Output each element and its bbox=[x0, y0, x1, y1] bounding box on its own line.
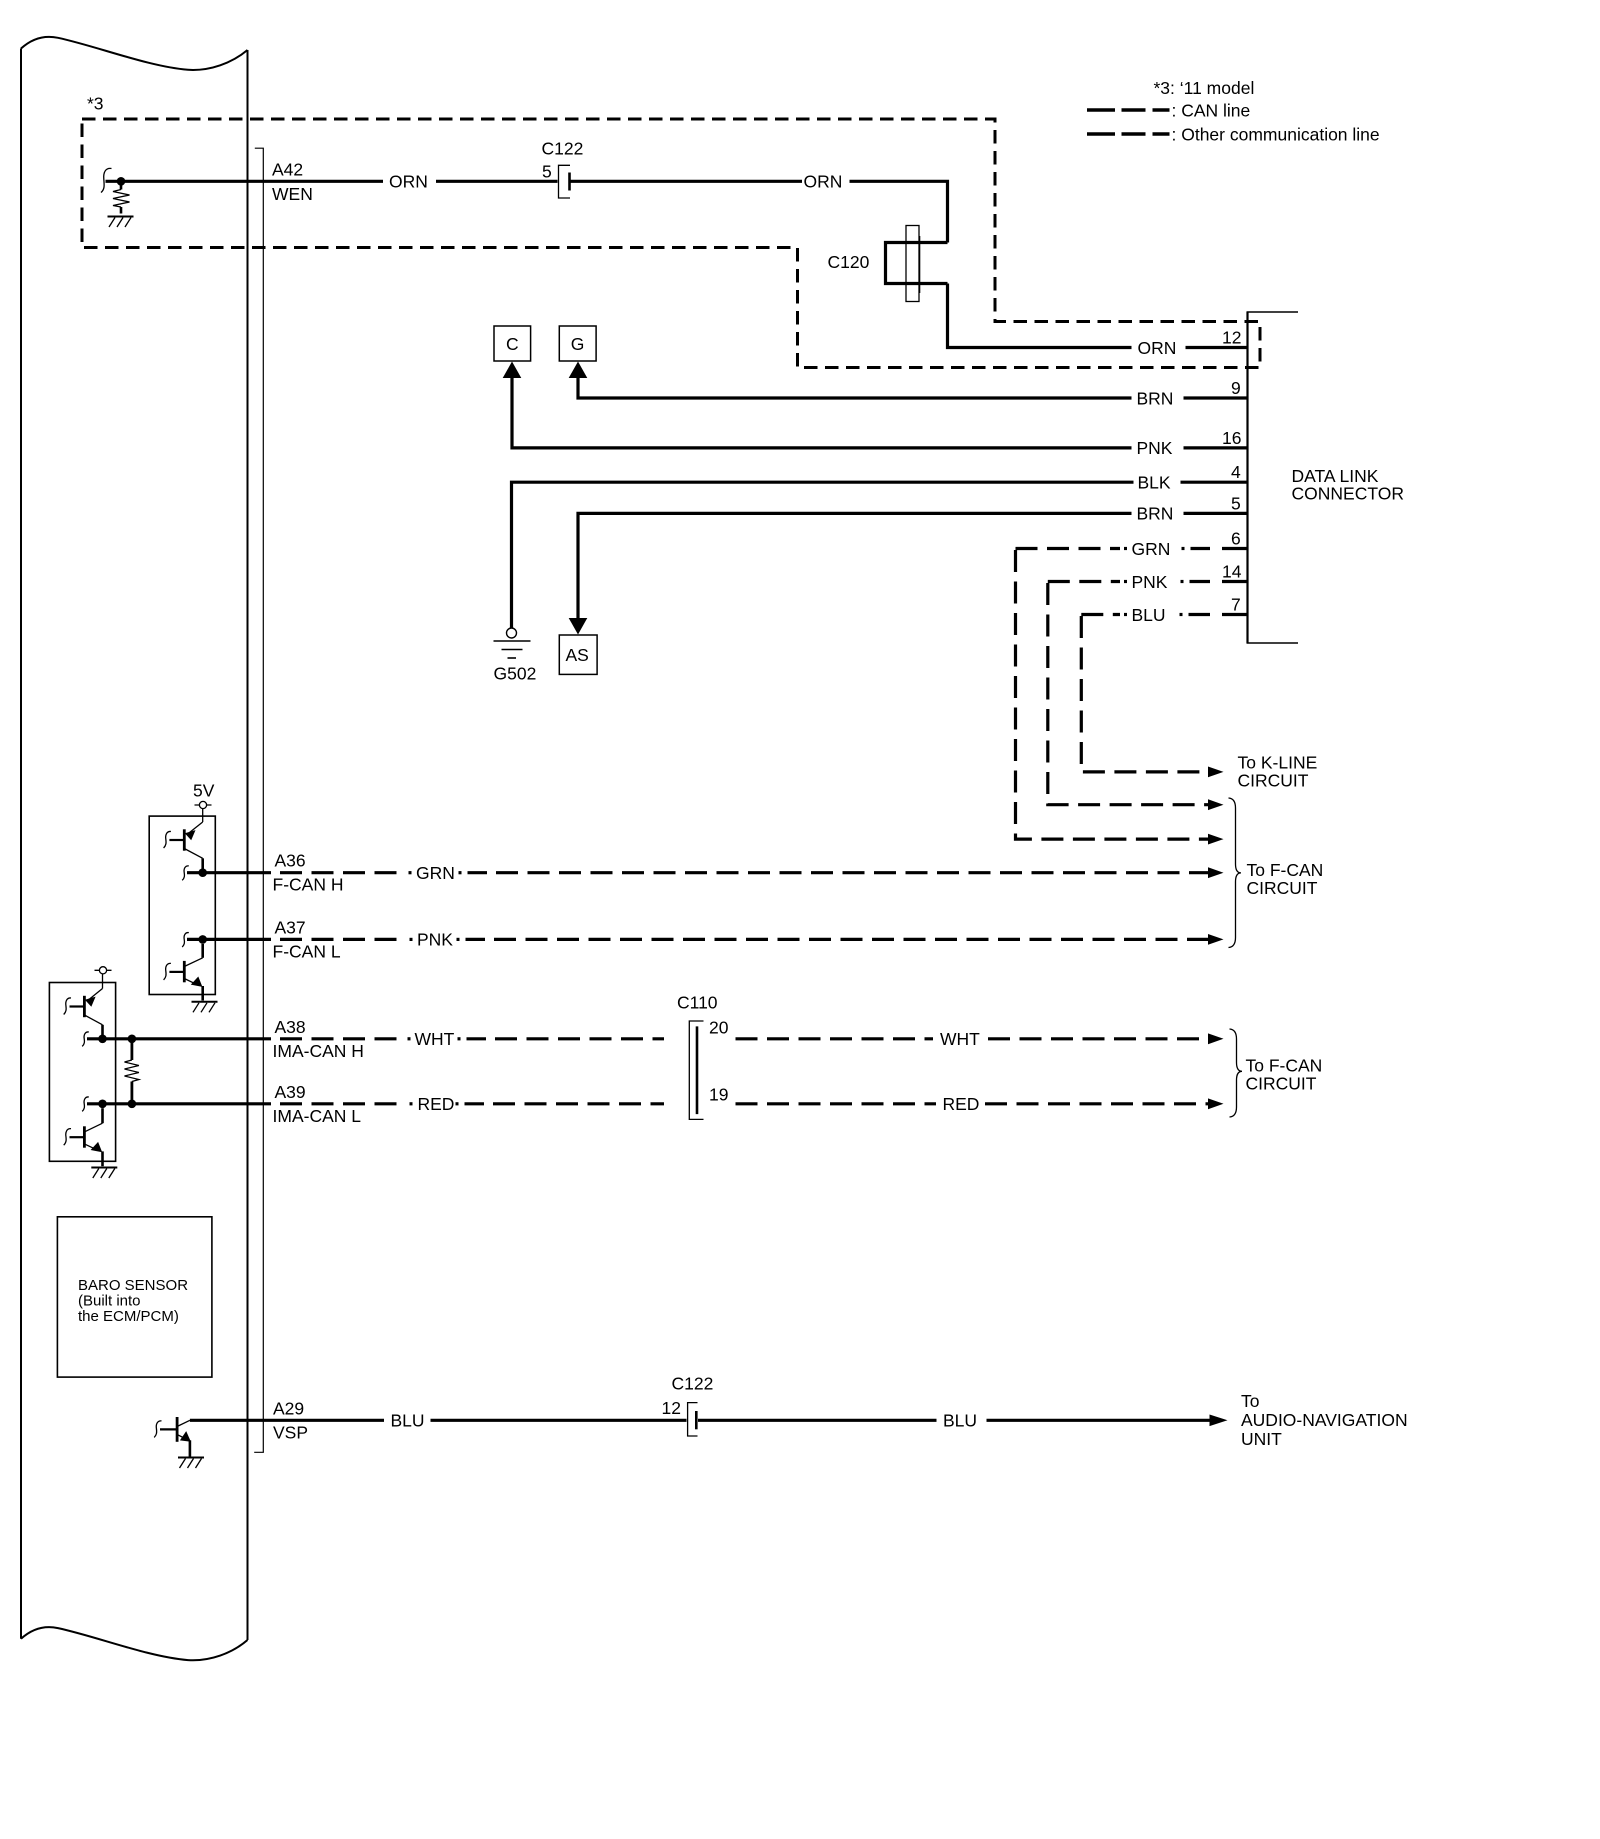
svg-text:BLK: BLK bbox=[1138, 473, 1171, 493]
svg-text:BLU: BLU bbox=[943, 1411, 977, 1431]
svg-text:C122: C122 bbox=[542, 139, 584, 159]
transistor Q1 (F-CAN H, PNP) bbox=[164, 822, 203, 873]
svg-text:*3: *3 bbox=[87, 94, 104, 114]
wire A29 VSP (BLU) bbox=[190, 1419, 1210, 1422]
arrow right (PNK to F-CAN) bbox=[1208, 799, 1224, 810]
svg-text:PNK: PNK bbox=[417, 930, 453, 950]
svg-text:WHT: WHT bbox=[940, 1029, 980, 1049]
svg-text:4: 4 bbox=[1231, 462, 1241, 482]
svg-text:To: To bbox=[1241, 1391, 1259, 1411]
svg-text:5: 5 bbox=[542, 161, 552, 181]
svg-text:AUDIO-NAVIGATION: AUDIO-NAVIGATION bbox=[1241, 1410, 1408, 1430]
wire A36 dashed (GRN) to F-CAN arrow bbox=[280, 871, 1209, 874]
terminating resistor between IMA-CAN H and L bbox=[125, 1039, 139, 1104]
A42 internal pull-up hook (internal circuit continuation mark) bbox=[101, 168, 112, 192]
svg-text:12: 12 bbox=[662, 1398, 681, 1418]
svg-text:: CAN line: : CAN line bbox=[1172, 101, 1251, 121]
svg-text:BARO SENSOR: BARO SENSOR bbox=[78, 1277, 188, 1294]
wire A38 dashed (WHT) to C110 bbox=[280, 1037, 664, 1040]
ground G502 (earth ground symbol) bbox=[494, 628, 531, 658]
arrow up into C box bbox=[503, 362, 522, 379]
svg-text:BLU: BLU bbox=[1132, 605, 1166, 625]
dashed outline *3 ('11 model CAN route) bbox=[82, 119, 1260, 368]
supply terminal circle (IMA-CAN driver) bbox=[95, 967, 112, 989]
svg-text:WEN: WEN bbox=[272, 184, 313, 204]
svg-text:the ECM/PCM): the ECM/PCM) bbox=[78, 1308, 179, 1325]
svg-text:19: 19 bbox=[709, 1084, 728, 1104]
wire A37 F-CAN L solid segment bbox=[182, 933, 189, 947]
svg-text:C122: C122 bbox=[672, 1374, 714, 1394]
wire DLC pin 7 (BLU dashed) to K-LINE circuit bbox=[1081, 615, 1247, 772]
ground (chassis) below Q5 bbox=[178, 1458, 204, 1469]
svg-text:A39: A39 bbox=[275, 1082, 306, 1102]
wire A37 dashed (PNK) to F-CAN arrow bbox=[280, 938, 1209, 941]
arrow right (WHT to F-CAN) bbox=[1208, 1033, 1224, 1044]
DATA LINK CONNECTOR body bbox=[1247, 312, 1299, 643]
node A38 junction dot (resistor) bbox=[128, 1035, 137, 1044]
5V supply terminal circle bbox=[195, 801, 212, 822]
resistor (A42 pull-down to ground) bbox=[113, 181, 130, 213]
svg-text:C120: C120 bbox=[828, 252, 870, 272]
node A42 junction dot bbox=[117, 177, 126, 186]
wire DLC pin 16 (PNK) to C box bbox=[512, 377, 1248, 448]
svg-text:GRN: GRN bbox=[416, 863, 455, 883]
svg-text:BRN: BRN bbox=[1137, 504, 1174, 524]
wire RED from C110 to F-CAN arrow bbox=[736, 1102, 1210, 1105]
arrow right (RED to F-CAN) bbox=[1208, 1098, 1224, 1109]
svg-text:: Other communication line: : Other communication line bbox=[1172, 125, 1380, 145]
arrow up into G box bbox=[569, 362, 588, 379]
svg-text:14: 14 bbox=[1222, 562, 1242, 582]
svg-text:16: 16 bbox=[1222, 428, 1241, 448]
wire A39 IMA-CAN L solid segment bbox=[82, 1097, 89, 1111]
svg-text:CONNECTOR: CONNECTOR bbox=[1292, 483, 1404, 503]
F-CAN driver IC box U1 bbox=[149, 816, 215, 994]
svg-text:To F-CAN: To F-CAN bbox=[1247, 860, 1324, 880]
svg-text:RED: RED bbox=[943, 1094, 980, 1114]
box AS (connector destination symbol) bbox=[559, 635, 597, 674]
svg-text:BLU: BLU bbox=[391, 1411, 425, 1431]
svg-text:6: 6 bbox=[1231, 529, 1241, 549]
wire from C120 down to DLC pin 12 (ORN) bbox=[948, 284, 1248, 348]
node A39 junction dot (resistor) bbox=[128, 1100, 137, 1109]
svg-text:To K-LINE: To K-LINE bbox=[1238, 753, 1318, 773]
svg-text:CIRCUIT: CIRCUIT bbox=[1247, 878, 1318, 898]
wire DLC pin 9 (BRN) to G box bbox=[578, 377, 1248, 399]
transistor Q4 (IMA-CAN L, NPN) bbox=[64, 1108, 103, 1166]
arrow right (A36 GRN to F-CAN) bbox=[1208, 867, 1224, 878]
IMA-CAN driver IC box U2 bbox=[49, 983, 115, 1162]
svg-text:GRN: GRN bbox=[1132, 539, 1171, 559]
svg-text:G502: G502 bbox=[494, 664, 537, 684]
box C (connector destination symbol) bbox=[494, 326, 531, 361]
svg-text:ORN: ORN bbox=[804, 172, 843, 192]
svg-text:7: 7 bbox=[1231, 595, 1241, 615]
wire A36 F-CAN H solid segment bbox=[182, 866, 189, 880]
svg-text:WHT: WHT bbox=[415, 1029, 455, 1049]
wire DLC pin 6 (GRN dashed) to F-CAN circuit bbox=[1016, 549, 1248, 840]
connector C110 (pins 20/19) bbox=[689, 1021, 703, 1119]
brace for upper F-CAN group bbox=[1229, 798, 1242, 948]
svg-text:A29: A29 bbox=[273, 1398, 304, 1418]
arrow right (BLU to K-LINE) bbox=[1208, 767, 1224, 778]
svg-text:C110: C110 bbox=[677, 993, 718, 1013]
svg-text:AS: AS bbox=[566, 645, 589, 665]
svg-text:IMA-CAN L: IMA-CAN L bbox=[273, 1106, 362, 1126]
svg-text:RED: RED bbox=[418, 1094, 455, 1114]
ECM connector pin strip bbox=[254, 148, 263, 1452]
connector C122 pin 5 (in-line connector symbol) bbox=[559, 165, 571, 198]
svg-text:(Built into: (Built into bbox=[78, 1293, 141, 1310]
wire DLC pin 14 (PNK dashed) to F-CAN circuit bbox=[1048, 582, 1248, 805]
connector C120 female body bbox=[906, 226, 919, 302]
svg-text:PNK: PNK bbox=[1132, 572, 1168, 592]
svg-text:UNIT: UNIT bbox=[1241, 1429, 1282, 1449]
node A36 junction dot bbox=[198, 868, 207, 877]
svg-text:F-CAN L: F-CAN L bbox=[273, 941, 341, 961]
svg-text:ORN: ORN bbox=[1138, 338, 1177, 358]
wire A39 dashed (RED) to C110 bbox=[280, 1102, 664, 1105]
ground (chassis) below Q2 bbox=[192, 1002, 218, 1013]
svg-text:A38: A38 bbox=[275, 1017, 306, 1037]
node A39 junction dot (driver) bbox=[98, 1100, 107, 1109]
svg-text:To F-CAN: To F-CAN bbox=[1246, 1056, 1323, 1076]
transistor Q3 (IMA-CAN H, PNP) bbox=[64, 989, 103, 1039]
svg-text:CIRCUIT: CIRCUIT bbox=[1238, 771, 1309, 791]
ground (chassis) below Q4 bbox=[91, 1168, 117, 1179]
svg-text:C: C bbox=[506, 334, 519, 354]
arrow right (BLU to audio-navigation unit) bbox=[1210, 1415, 1228, 1427]
node A38 junction dot (driver) bbox=[98, 1035, 107, 1044]
transistor Q2 (F-CAN L, NPN) bbox=[164, 944, 203, 1001]
BARO SENSOR box bbox=[57, 1217, 212, 1377]
ground (chassis) below A42 resistor bbox=[108, 217, 134, 228]
connector C122 pin 12 (in-line connector symbol) bbox=[688, 1403, 698, 1436]
svg-text:A36: A36 bbox=[275, 851, 306, 871]
svg-text:5: 5 bbox=[1231, 493, 1241, 513]
svg-text:IMA-CAN H: IMA-CAN H bbox=[273, 1041, 364, 1061]
svg-text:20: 20 bbox=[709, 1017, 729, 1037]
svg-text:5V: 5V bbox=[193, 781, 215, 801]
svg-text:12: 12 bbox=[1222, 328, 1241, 348]
brace for lower F-CAN group bbox=[1230, 1029, 1243, 1117]
wire DLC pin 5 (BRN) to AS box bbox=[578, 513, 1248, 619]
arrow down into AS box bbox=[569, 618, 588, 635]
wire DLC pin 4 (BLK) to ground G502 bbox=[512, 482, 1248, 627]
legend: other communication line sample bbox=[1087, 132, 1170, 136]
svg-text:A37: A37 bbox=[275, 917, 306, 937]
connector C120 (bulkhead connector, male bracket) bbox=[886, 243, 948, 284]
svg-text:A42: A42 bbox=[272, 159, 303, 179]
svg-text:*3: ‘11 model: *3: ‘11 model bbox=[1154, 78, 1255, 98]
arrow right (GRN to F-CAN) bbox=[1208, 834, 1224, 845]
legend: CAN line sample bbox=[1087, 108, 1170, 112]
node A37 junction dot bbox=[198, 935, 207, 944]
ECM/PCM module box (torn-edge outline) bbox=[21, 37, 248, 1660]
svg-text:CIRCUIT: CIRCUIT bbox=[1246, 1074, 1317, 1094]
svg-text:G: G bbox=[571, 334, 585, 354]
svg-text:BRN: BRN bbox=[1137, 388, 1174, 408]
transistor Q5 (VSP output) bbox=[154, 1417, 191, 1457]
wire WHT from C110 to F-CAN arrow bbox=[736, 1037, 1210, 1040]
svg-text:F-CAN H: F-CAN H bbox=[273, 875, 344, 895]
svg-text:PNK: PNK bbox=[1137, 438, 1173, 458]
svg-text:VSP: VSP bbox=[273, 1422, 308, 1442]
arrow right (A37 PNK to F-CAN) bbox=[1208, 934, 1224, 945]
wire A38 IMA-CAN H solid segment bbox=[82, 1032, 89, 1046]
box G (connector destination symbol) bbox=[559, 326, 596, 361]
svg-text:ORN: ORN bbox=[389, 172, 428, 192]
svg-text:9: 9 bbox=[1231, 378, 1241, 398]
wire A42 WEN (ORN) horizontal bbox=[106, 181, 948, 242]
